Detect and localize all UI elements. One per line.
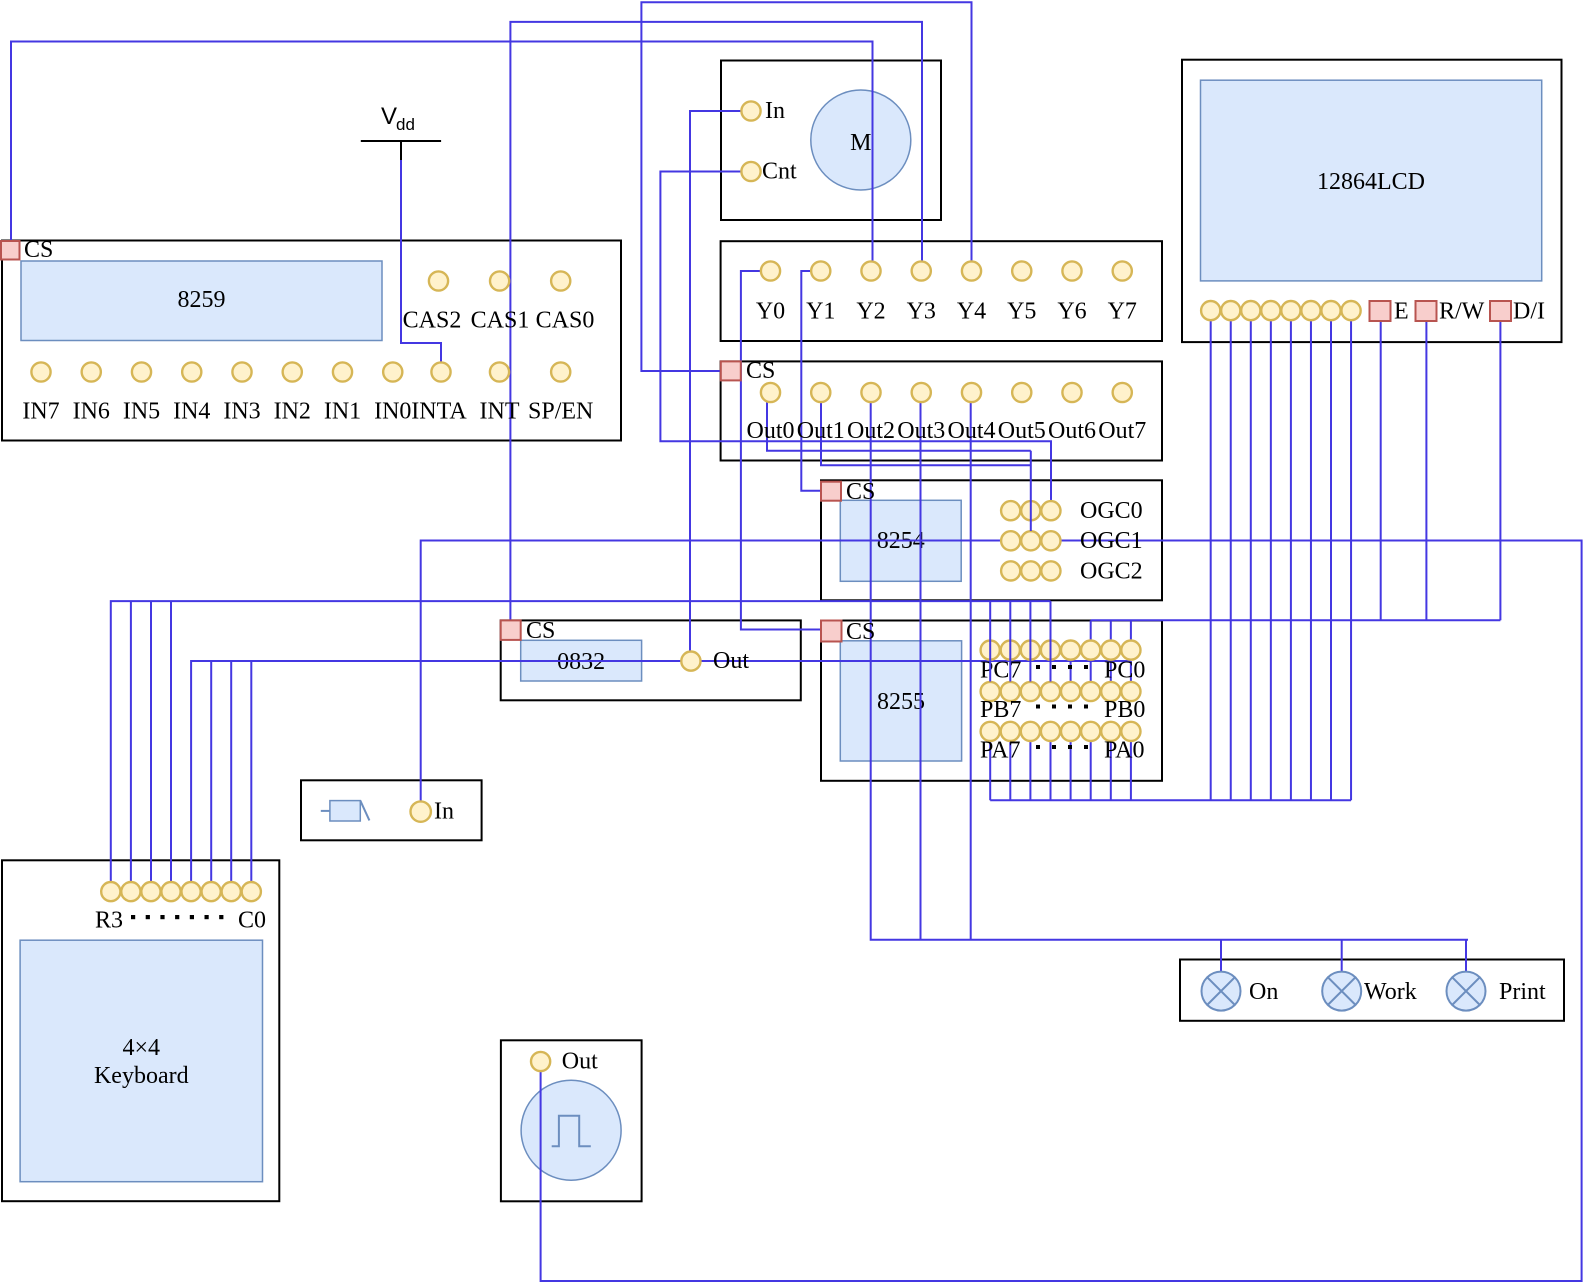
wire net Y3 to 0832 CS	[510, 22, 922, 620]
wire net Vdd to INTA	[401, 160, 441, 362]
decoder Y0-Y7 box	[721, 241, 1162, 341]
keyboard body	[20, 940, 262, 1181]
svg-text:M: M	[850, 130, 871, 156]
svg-text:C0: C0	[238, 908, 266, 934]
svg-text:Out1: Out1	[797, 418, 845, 444]
svg-text:Y0: Y0	[756, 299, 785, 325]
8255 pins PC7-PC0	[981, 641, 1141, 660]
wire net Y1 to 8254 CS	[801, 271, 821, 491]
svg-text:In: In	[765, 98, 785, 124]
Vdd power symbol	[361, 140, 441, 142]
wire net 8254 OGC0 to motor Cnt	[660, 172, 1051, 502]
svg-text:CS: CS	[24, 237, 53, 263]
motor unit box	[721, 61, 941, 221]
0832 DAC chip body	[521, 640, 642, 681]
svg-text:Y6: Y6	[1057, 299, 1086, 325]
8259 CS chip-select pad	[1, 241, 20, 260]
8255 PPI U4 box	[821, 621, 1162, 781]
8254 chip body	[840, 500, 961, 581]
8254 CS chip-select pad	[821, 482, 841, 501]
svg-text:CS: CS	[746, 358, 775, 384]
wire net Out2/Out3/Out4 to lamps	[871, 403, 1468, 940]
svg-text:Out3: Out3	[897, 418, 945, 444]
svg-text:Out: Out	[713, 648, 749, 674]
svg-text:PA7: PA7	[980, 738, 1020, 764]
wire net pulse Out loop to OGC1 row and one-shot In	[421, 541, 1582, 1282]
LCD pad D/I	[1490, 301, 1511, 321]
8259 CAS2 CAS1 CAS0 pins	[429, 271, 570, 290]
svg-text:Y2: Y2	[856, 299, 885, 325]
wire keyboard R bus drops over PC pins to PB7-PB4	[990, 601, 1050, 681]
svg-text:OGC1: OGC1	[1080, 528, 1143, 554]
svg-text:Out7: Out7	[1098, 418, 1146, 444]
lamp Work	[1322, 972, 1361, 1011]
svg-text:12864LCD: 12864LCD	[1317, 169, 1425, 195]
svg-text:CS: CS	[846, 479, 875, 505]
svg-text:CS: CS	[526, 618, 555, 644]
8255 pins PB7-PB0	[981, 682, 1141, 701]
motor symbol M (body, wires pass over)	[811, 90, 911, 190]
svg-text:INT: INT	[480, 399, 520, 425]
8259 chip body	[21, 261, 382, 341]
svg-text:Print: Print	[1499, 979, 1546, 1005]
pulse generator pin Out	[531, 1052, 550, 1071]
LCD pad E	[1370, 301, 1391, 321]
svg-text:SP/EN: SP/EN	[528, 399, 593, 425]
motor pin Cnt	[741, 162, 760, 181]
svg-text:Keyboard: Keyboard	[94, 1063, 189, 1089]
LCD screen body	[1201, 80, 1542, 281]
svg-text:dd: dd	[396, 115, 415, 134]
wire net LCD data bus to PA7-PA0	[1211, 321, 1351, 800]
svg-text:IN3: IN3	[223, 399, 260, 425]
wire net LCD E,R/W,D/I to PC2,PC1,PC0	[1381, 322, 1501, 621]
pulse generator box	[501, 1040, 642, 1201]
svg-text:In: In	[434, 799, 454, 825]
svg-text:Work: Work	[1364, 979, 1417, 1005]
8254 pins OGC2 group	[1001, 561, 1060, 580]
svg-text:PA0: PA0	[1104, 738, 1144, 764]
svg-text:8255: 8255	[877, 689, 925, 715]
8254 timer U2 box	[821, 480, 1162, 600]
svg-text:Out4: Out4	[948, 418, 996, 444]
svg-text:CAS2: CAS2	[403, 308, 462, 334]
svg-text:INTA: INTA	[411, 399, 467, 425]
svg-text:Y7: Y7	[1108, 299, 1137, 325]
LCD pad R/W	[1416, 301, 1437, 321]
svg-text:OGC0: OGC0	[1080, 498, 1143, 524]
wire net Y2 to 8259 CS	[11, 42, 873, 262]
pulse generator symbol body	[521, 1080, 621, 1180]
keyboard pins R3..C0	[101, 882, 261, 901]
0832 CS chip-select pad	[501, 620, 521, 640]
one-shot In box	[301, 780, 482, 840]
svg-text:On: On	[1249, 979, 1278, 1005]
svg-text:Out5: Out5	[998, 418, 1046, 444]
latch Out0-Out7 box	[721, 361, 1162, 460]
latch pins Out0-Out7	[761, 383, 1132, 402]
8254 pins OGC0 group	[1001, 501, 1060, 520]
lamp Print	[1447, 972, 1486, 1011]
wire net Y4 to Out-box CS	[641, 2, 971, 371]
svg-text:IN5: IN5	[123, 399, 160, 425]
svg-text:4×4: 4×4	[123, 1035, 161, 1061]
wire net Out1 branch	[821, 403, 1031, 466]
indicator lamps box	[1180, 960, 1564, 1021]
svg-text:Out6: Out6	[1048, 418, 1096, 444]
8255 CS chip-select pad	[821, 621, 842, 642]
8259 pins IN7-IN0, INTA, INT, SP/EN	[31, 362, 570, 381]
wire net 0832 Out to motor In	[690, 111, 741, 652]
0832 pin Out	[681, 652, 700, 671]
one-shot pin In	[411, 801, 431, 821]
svg-text:R3: R3	[95, 908, 123, 934]
LCD data pins D7-D0	[1201, 301, 1361, 320]
lamp On	[1202, 972, 1241, 1011]
svg-text:IN6: IN6	[73, 399, 110, 425]
svg-text:Out: Out	[562, 1049, 598, 1075]
svg-text:PB7: PB7	[980, 697, 1021, 723]
svg-text:Y5: Y5	[1007, 299, 1036, 325]
Out-box CS chip-select pad	[721, 361, 741, 380]
svg-text:IN7: IN7	[22, 399, 59, 425]
svg-text:PC0: PC0	[1104, 658, 1145, 684]
svg-text:Out2: Out2	[847, 418, 895, 444]
svg-text:8259: 8259	[178, 287, 226, 313]
svg-text:IN1: IN1	[324, 399, 361, 425]
decoder pins Y0-Y7	[761, 261, 1132, 280]
svg-text:Cnt: Cnt	[762, 159, 797, 185]
svg-text:Y3: Y3	[907, 299, 936, 325]
wire net keyboard C3-C0 bus	[191, 661, 1131, 882]
8255 chip body	[840, 641, 961, 761]
svg-text:Out0: Out0	[747, 418, 795, 444]
svg-text:IN4: IN4	[173, 399, 210, 425]
svg-text:IN0: IN0	[374, 399, 411, 425]
wire net keyboard R3-R0 bus	[111, 601, 1051, 882]
wire net keyboard C bus drops to PB3-PB0	[1071, 661, 1131, 682]
DAC 0832 U3 box	[501, 620, 801, 700]
svg-text:PC7: PC7	[980, 658, 1021, 684]
8259 interrupt controller U1 box	[2, 241, 621, 441]
motor pin In	[741, 101, 760, 120]
svg-text:CS: CS	[846, 619, 875, 645]
svg-text:Y4: Y4	[957, 299, 986, 325]
one-shot symbol	[321, 810, 330, 812]
svg-text:IN2: IN2	[274, 399, 311, 425]
svg-text:OGC2: OGC2	[1080, 559, 1143, 585]
4x4 keyboard box	[2, 860, 279, 1201]
svg-text:R/W: R/W	[1439, 299, 1485, 325]
8255 pins PA7-PA0	[981, 722, 1141, 741]
svg-text:PB0: PB0	[1104, 697, 1145, 723]
svg-text:Y1: Y1	[806, 299, 835, 325]
12864 LCD box	[1182, 60, 1562, 342]
8254 pins OGC1 group	[1001, 531, 1060, 550]
svg-text:D/I: D/I	[1513, 299, 1545, 325]
svg-text:V: V	[381, 103, 397, 130]
wire net Y0 to 8255 CS	[741, 271, 821, 630]
wire Out0/Out1 drop over OGC0 into OGC1	[1030, 451, 1032, 531]
svg-text:CAS0: CAS0	[536, 308, 595, 334]
wire net Out0 to OGC1 (horizontal run)	[767, 403, 1031, 451]
svg-text:CAS1: CAS1	[471, 308, 530, 334]
svg-text:E: E	[1394, 299, 1409, 325]
